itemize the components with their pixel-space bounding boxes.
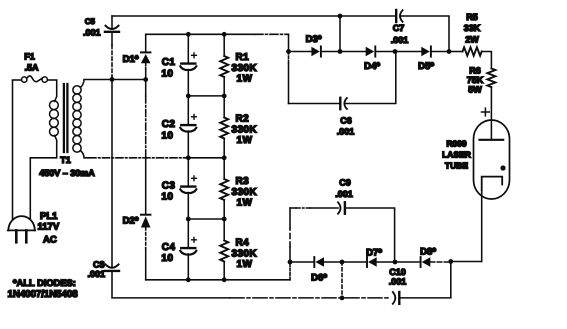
label C4 plus <box>192 237 197 242</box>
node D8/cathode/bottom junction <box>448 259 453 264</box>
wire C3 to stage3 wire <box>187 193 189 220</box>
wire C column stage4 top lead <box>187 219 189 247</box>
wire riser to top bus <box>339 16 341 52</box>
wire C5 to secondary-top node (dashed scan style) <box>111 33 113 45</box>
wire top bus corner down to D3 node <box>288 34 290 51</box>
wire R5 to R6 corner <box>482 52 492 69</box>
capacitor C3 <box>180 187 196 194</box>
wire C2 to mid node <box>187 131 189 158</box>
wire D4 to D5 node <box>376 51 395 53</box>
svg-text:D8*: D8* <box>420 247 436 258</box>
wire R2 to stage2 <box>223 139 225 158</box>
wire C8 to bottom bus corner <box>112 272 230 298</box>
wire ladder top bus dashed right part <box>255 33 289 35</box>
wire C9 left lead <box>290 207 296 209</box>
svg-text:450V – 30mA: 450V – 30mA <box>39 168 95 178</box>
diode D6 <box>314 257 324 267</box>
wire D3 to D4 node <box>322 51 341 53</box>
wire D6 to D7 node <box>324 261 342 263</box>
wire D8 to cathode node (dashed) <box>430 261 451 263</box>
node top bus junction <box>338 14 343 19</box>
wire D5 to R5 node <box>432 51 450 53</box>
svg-text:C10: C10 <box>389 267 406 277</box>
fuse F1 <box>13 76 57 82</box>
svg-text:33K: 33K <box>464 23 481 33</box>
wire D2 to bottom bus (part dashed) <box>145 228 147 249</box>
wire bottom bus riser to D6 node (dashed) <box>289 262 291 280</box>
svg-text:10: 10 <box>161 68 173 79</box>
transformer T1 primary winding <box>50 101 59 136</box>
wire C4 to bottom bus <box>187 254 189 280</box>
capacitor C1 <box>180 64 196 71</box>
wire primary bottom lead jog to plug <box>30 135 56 219</box>
wire D8 cathode lead (part dashed) <box>395 261 421 263</box>
svg-text:T1: T1 <box>60 155 71 165</box>
wire C6 right lead and riser <box>344 52 395 104</box>
svg-text:PL1: PL1 <box>40 211 58 222</box>
svg-text:.5A: .5A <box>24 63 39 73</box>
wire drop to bottom bus (dashed) <box>341 262 343 298</box>
wire D line top (bus corner to D1) <box>145 34 147 51</box>
svg-text:D3*: D3* <box>306 34 322 45</box>
svg-text:C6: C6 <box>340 116 352 126</box>
diode D4 <box>366 46 376 56</box>
svg-text:1W: 1W <box>237 259 253 270</box>
svg-text:C4: C4 <box>162 242 176 253</box>
svg-text:R3: R3 <box>236 176 250 187</box>
wire R4 to bottom bus <box>223 262 225 280</box>
diode D7 <box>367 257 377 267</box>
wire D4 anode lead <box>340 51 366 53</box>
resistor R1 <box>220 56 228 77</box>
svg-text:75K: 75K <box>467 75 484 85</box>
svg-text:D2*: D2* <box>123 216 139 227</box>
resistor R6 <box>487 69 495 88</box>
label C2 plus <box>192 114 197 119</box>
svg-text:1W: 1W <box>237 135 253 146</box>
wire C column stage1 top lead <box>187 34 189 62</box>
capacitor C6 <box>340 98 347 109</box>
wire R column stage3 top lead <box>223 158 225 179</box>
wire R1 to stage1 <box>223 77 225 96</box>
capacitor C5 <box>105 26 119 32</box>
svg-text:C1: C1 <box>162 57 176 68</box>
svg-text:R099: R099 <box>446 139 467 149</box>
wire primary top lead <box>55 81 57 102</box>
node C4 bottom junction <box>186 277 191 282</box>
laser tube getter dot <box>500 165 505 170</box>
svg-text:C5: C5 <box>85 17 96 26</box>
diode D5 <box>421 46 431 56</box>
laser tube cathode element <box>482 177 503 190</box>
wire top bus from C5 corner to C7 <box>112 15 394 17</box>
wire R column stage1 top lead <box>223 34 225 56</box>
svg-text:.001: .001 <box>389 277 407 287</box>
wire bottom bus dash-dot section <box>230 297 391 299</box>
node R1/R2 junction <box>222 94 227 99</box>
svg-text:1W: 1W <box>237 74 253 85</box>
svg-text:R6: R6 <box>469 66 481 76</box>
label C3 plus <box>192 176 197 181</box>
capacitor C10 <box>393 292 400 304</box>
node C1/C2 junction <box>186 94 191 99</box>
wire D6 cathode lead <box>290 261 314 263</box>
resistor R5 <box>463 47 482 55</box>
svg-text:C7: C7 <box>393 23 405 33</box>
node D4/D5 junction <box>393 49 398 54</box>
laser tube anode plate <box>480 139 504 141</box>
svg-text:TUBE: TUBE <box>445 161 468 171</box>
wire D7 cathode lead <box>342 261 367 263</box>
capacitor C9 <box>338 202 345 213</box>
wire C6 left riser (dashed) <box>288 52 290 65</box>
wire D3 anode lead <box>289 51 312 53</box>
wire C column stage3 top lead <box>187 158 189 186</box>
node multiplier top-left <box>286 49 291 54</box>
wire stage3 <box>188 218 224 220</box>
svg-text:C3: C3 <box>162 180 176 191</box>
svg-text:1W: 1W <box>237 198 253 209</box>
laser tube V1 envelope <box>474 120 510 199</box>
label C1 plus <box>192 53 197 58</box>
wire C9 left riser <box>289 247 291 262</box>
node D5/R5/top-bus junction <box>447 49 452 54</box>
svg-text:D1*: D1* <box>123 54 139 65</box>
label anode plus <box>482 108 490 116</box>
diode D8 <box>421 257 431 267</box>
node D7/D8 junction <box>393 260 398 265</box>
wire cathode to D8 node <box>451 261 482 263</box>
svg-text:10: 10 <box>161 130 173 141</box>
wire ladder top bus <box>146 33 255 35</box>
svg-text:D5*: D5* <box>418 61 434 72</box>
capacitor C4 <box>180 248 196 255</box>
svg-text:.001: .001 <box>83 28 101 38</box>
svg-text:D4*: D4* <box>364 61 380 72</box>
wire top bus from C7 to right corner down to D5 node <box>400 16 449 52</box>
wire R3 to stage3 <box>223 200 225 219</box>
node R4 bottom junction <box>222 277 227 282</box>
wire D1 to secondary-top node (dashed) <box>145 63 147 69</box>
node R3/R4 junction <box>222 217 227 222</box>
resistor R3 <box>220 179 228 200</box>
svg-text:330K: 330K <box>232 249 258 260</box>
node C3/C4 junction <box>186 217 191 222</box>
transformer T1 core <box>64 84 68 152</box>
svg-text:.001: .001 <box>337 127 355 137</box>
svg-text:AC: AC <box>43 235 57 246</box>
svg-text:.001: .001 <box>335 189 353 199</box>
plug PL1 <box>8 216 35 242</box>
node secondary-top at D line <box>143 77 148 82</box>
wire R column stage2 top lead <box>223 96 225 118</box>
svg-text:117V: 117V <box>38 222 60 233</box>
svg-text:D6*: D6* <box>311 273 327 284</box>
node D6/D7 junction <box>340 260 345 265</box>
svg-text:330K: 330K <box>232 63 258 74</box>
wire ladder bottom bus <box>146 279 290 281</box>
wire D7 to D8 node <box>377 261 395 263</box>
wire C6 left lead <box>289 103 340 105</box>
wire R column stage4 top lead <box>223 219 225 241</box>
node D3/D4 junction <box>338 49 343 54</box>
svg-text:C9: C9 <box>339 178 351 188</box>
transformer T1 secondary winding <box>73 86 81 152</box>
capacitor C2 <box>180 125 196 132</box>
wire bottom bus from C10 to right riser <box>401 262 451 298</box>
svg-text:C8: C8 <box>93 260 105 270</box>
resistor R2 <box>220 118 228 139</box>
svg-text:*ALL DIODES:: *ALL DIODES: <box>13 278 76 288</box>
svg-text:R1: R1 <box>236 52 250 63</box>
svg-text:2W: 2W <box>465 35 479 45</box>
svg-text:D7*: D7* <box>366 248 382 259</box>
wire secondary bottom hook <box>80 151 89 158</box>
svg-text:330K: 330K <box>232 187 258 198</box>
svg-text:C2: C2 <box>162 119 176 130</box>
wire D5 anode lead <box>395 51 421 53</box>
wire C column stage2 top lead <box>187 96 189 124</box>
diode D2 <box>141 215 151 228</box>
svg-text:.001: .001 <box>87 269 105 279</box>
svg-text:F1: F1 <box>24 52 35 62</box>
svg-text:LASER: LASER <box>442 150 471 160</box>
diode D1 <box>141 52 151 63</box>
wire secondary bottom to ladder mid node (dash-dot) <box>89 157 188 159</box>
svg-text:5W: 5W <box>468 85 482 95</box>
wire AC hot: fuse left down to plug <box>12 81 14 220</box>
node ladder top R column <box>222 32 227 37</box>
svg-text:R4: R4 <box>236 238 250 249</box>
wire D line middle (dash-dot scan style) <box>145 80 147 97</box>
node ladder mid (secondary feed) <box>186 155 191 160</box>
capacitor C7 <box>396 10 402 22</box>
node secondary-top at C5 line <box>110 77 115 82</box>
wire stage2 <box>188 157 224 159</box>
svg-text:1N4007/1N5408: 1N4007/1N5408 <box>8 289 79 300</box>
node R2/R3 junction <box>222 155 227 160</box>
wire C5 top lead <box>111 16 113 29</box>
svg-text:R5: R5 <box>466 12 478 22</box>
svg-text:R2: R2 <box>236 114 250 125</box>
wire C5/C8 line mid section <box>111 80 113 268</box>
wire R6 to laser anode <box>490 87 492 139</box>
wire cathode exit <box>481 190 483 262</box>
node bottom bus junction <box>340 296 345 301</box>
resistor R4 <box>220 241 228 262</box>
svg-text:330K: 330K <box>232 125 258 136</box>
capacitor C8 <box>105 264 119 271</box>
wire C1 to stage1 wire <box>187 70 189 96</box>
node multiplier bottom-left <box>288 260 293 265</box>
wire C9 right lead and riser <box>346 208 395 262</box>
diode D3 <box>311 46 321 56</box>
wire R5 left lead <box>449 51 463 53</box>
wire stage1 <box>188 95 224 97</box>
svg-text:10: 10 <box>161 253 173 264</box>
wire secondary top to ladder <box>80 80 145 88</box>
svg-text:10: 10 <box>161 192 173 203</box>
node ladder top C column <box>186 32 191 37</box>
svg-text:.001: .001 <box>391 35 409 45</box>
